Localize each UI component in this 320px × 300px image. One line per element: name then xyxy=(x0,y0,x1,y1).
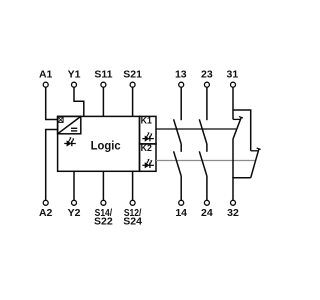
K2 actuation line (gray) xyxy=(156,160,256,162)
contact K2 NC 31-32 blade tip tick xyxy=(257,148,261,149)
node S12/S24 xyxy=(123,207,142,228)
terminal circle 24 xyxy=(204,200,209,205)
contact K1 NO 23-24 blade xyxy=(199,119,207,144)
svg-text:14: 14 xyxy=(175,207,187,219)
terminal circle 13 xyxy=(179,82,184,87)
terminal circle S14/S22 xyxy=(101,200,106,205)
svg-text:23: 23 xyxy=(201,69,213,81)
wire 31 branch to second NC contact xyxy=(233,110,251,151)
wire Y1 to logic box xyxy=(74,87,84,116)
terminal circle S11 xyxy=(101,82,106,87)
node 31 xyxy=(227,69,239,81)
wire 31-32 left lower xyxy=(232,139,234,178)
terminal circle Y2 xyxy=(72,200,77,205)
K1 actuation line xyxy=(156,128,237,130)
svg-text:A1: A1 xyxy=(39,69,53,81)
node 14 xyxy=(175,207,187,219)
power supply U1 diagonal xyxy=(58,116,81,133)
logic box xyxy=(58,116,140,171)
node S14/S22 xyxy=(94,207,113,228)
node 24 xyxy=(201,207,213,219)
LED indicator K1 xyxy=(142,132,154,142)
svg-text:S21: S21 xyxy=(123,69,142,81)
terminal circle 32 xyxy=(231,200,236,205)
terminal circle A1 xyxy=(43,82,48,87)
wire A1 to power supply xyxy=(46,87,58,119)
wire 13 upper xyxy=(180,87,182,120)
wire 23-24 middle xyxy=(206,144,208,152)
node Y2 xyxy=(68,207,81,219)
svg-text:S24: S24 xyxy=(123,216,142,228)
LED indicator K2 xyxy=(142,159,154,169)
svg-text:32: 32 xyxy=(227,207,239,219)
relay K2 box xyxy=(140,144,157,171)
wire 32 bottom link xyxy=(233,178,251,200)
svg-text:Y1: Y1 xyxy=(68,69,81,81)
terminal circle S12/S24 xyxy=(130,200,135,205)
terminal circle S21 xyxy=(130,82,135,87)
node Y1 xyxy=(68,69,81,81)
svg-text:Y2: Y2 xyxy=(68,207,81,219)
contact K2 NC 31-32 seat xyxy=(251,150,258,152)
wire S14/S22 from logic box xyxy=(102,171,104,200)
svg-text:S22: S22 xyxy=(94,216,113,228)
svg-text:A2: A2 xyxy=(39,207,53,219)
wire 13-14 middle xyxy=(180,144,182,152)
relay K1 box xyxy=(140,116,157,143)
wire 31 upper xyxy=(232,87,234,119)
node S11 xyxy=(94,69,112,81)
contact K1 NO 13-14 blade xyxy=(174,119,182,144)
svg-text:31: 31 xyxy=(227,69,239,81)
terminal circle 31 xyxy=(231,82,236,87)
contact K1 NC 31-32 blade xyxy=(233,117,241,139)
svg-text:24: 24 xyxy=(201,207,213,219)
wire 24 lower xyxy=(206,176,208,200)
contact K2 NC 31-32 blade xyxy=(251,149,259,178)
node 23 xyxy=(201,69,213,81)
svg-text:S11: S11 xyxy=(94,69,112,81)
node 32 xyxy=(227,207,239,219)
power supply U1 box xyxy=(58,116,81,133)
wire A2 from power supply xyxy=(46,130,58,201)
wire 14 lower xyxy=(180,176,182,200)
power supply input pulse symbol xyxy=(58,117,63,122)
node A2 xyxy=(39,207,53,219)
wire S12/S24 from logic box xyxy=(132,171,134,200)
terminal circle Y1 xyxy=(72,82,77,87)
wire S11 to logic box xyxy=(102,87,104,116)
svg-text:K2: K2 xyxy=(141,143,152,153)
node A1 xyxy=(39,69,53,81)
svg-text:K1: K1 xyxy=(141,116,152,126)
contact K2 NO 13-14 blade xyxy=(174,151,182,176)
svg-text:Logic: Logic xyxy=(91,139,121,153)
contact K1 NC 31-32 seat xyxy=(233,118,240,120)
terminal circle A2 xyxy=(43,200,48,205)
svg-text:13: 13 xyxy=(175,69,187,81)
terminal circle 14 xyxy=(179,200,184,205)
terminal circle 23 xyxy=(204,82,209,87)
contact K1 NC 31-32 blade tip tick xyxy=(239,117,243,118)
power supply DC symbol = xyxy=(71,128,77,131)
contact K2 NO 23-24 blade xyxy=(199,151,207,176)
LED indicator under power supply xyxy=(64,137,76,147)
node S21 xyxy=(123,69,142,81)
wire Y2 from logic box xyxy=(73,171,75,200)
wire 23 upper xyxy=(206,87,208,120)
node 13 xyxy=(175,69,187,81)
wire S21 to logic box xyxy=(132,87,134,116)
